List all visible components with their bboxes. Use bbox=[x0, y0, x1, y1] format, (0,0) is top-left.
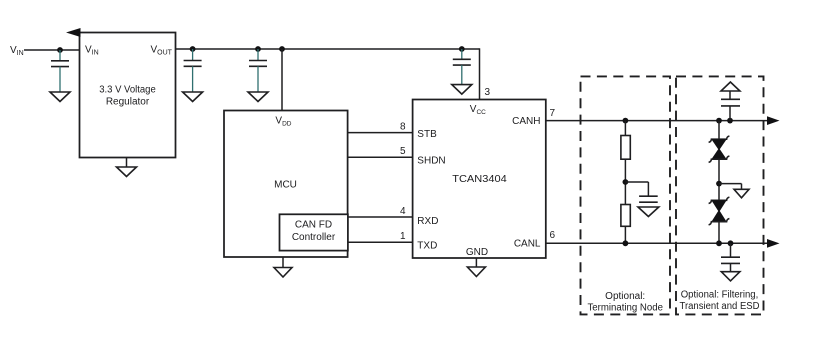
wire STB bbox=[348, 132, 413, 134]
pin number 6 bbox=[550, 230, 556, 241]
capacitor C6 CANH filter bbox=[721, 91, 740, 121]
svg-text:RXD: RXD bbox=[417, 216, 438, 227]
svg-text:GND: GND bbox=[466, 247, 488, 258]
junction CANH termination tap bbox=[623, 118, 629, 124]
pin number 8 bbox=[400, 122, 406, 133]
MCU name bbox=[274, 180, 297, 191]
CAN FD Controller label bbox=[292, 220, 336, 244]
junction C3 tap bbox=[255, 46, 261, 52]
junction VIN tap bbox=[57, 47, 63, 53]
wire VOUT rail bbox=[176, 48, 480, 50]
voltage regulator U1 box bbox=[80, 33, 176, 158]
pin number 5 bbox=[400, 146, 406, 157]
ground for U2 bbox=[467, 258, 485, 277]
resistor R1 bbox=[621, 136, 630, 160]
pin label VDD of MCU bbox=[275, 116, 291, 128]
wire SHDN bbox=[348, 156, 413, 158]
capacitor C1 input bypass bbox=[51, 50, 69, 92]
junction VDD tap bbox=[279, 46, 285, 52]
ground for C2 bbox=[183, 92, 203, 102]
wire R1 to R2 bbox=[624, 159, 626, 204]
junction C2 tap bbox=[190, 46, 196, 52]
pin label RXD bbox=[417, 216, 438, 227]
svg-text:8: 8 bbox=[400, 122, 406, 133]
capacitor C4 bbox=[453, 49, 471, 85]
svg-text:STB: STB bbox=[417, 129, 437, 140]
svg-text:CANH: CANH bbox=[512, 116, 540, 127]
ground for C5 bbox=[638, 207, 659, 217]
svg-text:5: 5 bbox=[400, 146, 406, 157]
pin number 4 bbox=[400, 206, 406, 217]
pin label VCC bbox=[470, 104, 486, 116]
svg-text:Transient and ESD: Transient and ESD bbox=[680, 301, 760, 312]
pin label TXD bbox=[417, 240, 437, 251]
pin label GND bbox=[466, 247, 488, 258]
junction split cap tap bbox=[623, 179, 629, 185]
dashed box optional filtering ESD bbox=[676, 76, 764, 314]
capacitor C7 CANL filter bbox=[721, 243, 740, 271]
ground up for C6 bbox=[721, 82, 740, 91]
ground for U1 bbox=[117, 158, 137, 177]
svg-text:TCAN3404: TCAN3404 bbox=[452, 174, 507, 185]
junction CANH filter cap tap bbox=[727, 118, 733, 124]
svg-text:3: 3 bbox=[485, 87, 491, 98]
label optional filtering transient ESD bbox=[680, 290, 760, 313]
pin label CANH bbox=[512, 116, 540, 127]
svg-text:7: 7 bbox=[550, 108, 556, 119]
wire TXD bbox=[348, 241, 413, 243]
svg-text:4: 4 bbox=[400, 206, 406, 217]
svg-text:MCU: MCU bbox=[274, 180, 297, 191]
arrow CANH bbox=[767, 116, 780, 125]
pin label VOUT of U1 bbox=[151, 45, 173, 57]
svg-text:Terminating Node: Terminating Node bbox=[587, 303, 663, 314]
MCU box bbox=[224, 111, 348, 258]
capacitor C3 bbox=[249, 49, 267, 92]
wire CANH bus bbox=[546, 120, 769, 122]
wire VIN input bbox=[24, 49, 80, 51]
pin label SHDN bbox=[417, 156, 445, 167]
wire midpoint to ground bbox=[719, 184, 742, 190]
pin label STB bbox=[417, 129, 437, 140]
pin label VIN of U1 bbox=[85, 45, 99, 57]
label optional terminating node bbox=[587, 291, 663, 314]
wire to split cap bbox=[625, 181, 648, 183]
wire R2 to CANL bbox=[624, 226, 626, 243]
junction CANL filter cap tap bbox=[728, 240, 734, 246]
pin number 1 bbox=[400, 231, 406, 242]
wire D1 to D2 bbox=[718, 159, 720, 200]
ground for C1 bbox=[50, 92, 70, 102]
node VIN label bbox=[10, 45, 24, 57]
svg-text:6: 6 bbox=[550, 230, 556, 241]
svg-text:Optional:: Optional: bbox=[605, 291, 645, 302]
svg-text:CANL: CANL bbox=[514, 238, 541, 249]
pin label CANL bbox=[514, 238, 541, 249]
ground for TVS midpoint bbox=[734, 189, 749, 198]
junction CANH TVS tap bbox=[716, 118, 722, 124]
U2 name TCAN3404 bbox=[452, 174, 507, 185]
svg-text:CAN FD: CAN FD bbox=[295, 220, 332, 231]
wire RXD bbox=[348, 216, 413, 218]
wire CANH to TVS D1 bbox=[718, 121, 720, 140]
junction C4 tap bbox=[459, 46, 465, 52]
ground for C7 bbox=[721, 272, 740, 281]
wire VDD stub to MCU bbox=[281, 49, 283, 111]
svg-text:SHDN: SHDN bbox=[417, 156, 445, 167]
ground for C4 bbox=[452, 85, 472, 95]
junction CANL TVS tap bbox=[716, 240, 722, 246]
capacitor C5 split termination bbox=[639, 182, 658, 202]
wire to R1 bbox=[624, 121, 626, 136]
CAN FD Controller box bbox=[280, 214, 348, 250]
dashed box optional terminating node bbox=[581, 76, 671, 314]
arrow input continuation bbox=[66, 28, 81, 37]
transceiver U2 TCAN3404 box bbox=[413, 100, 546, 259]
svg-text:Regulator: Regulator bbox=[106, 97, 150, 108]
wire VCC stub to TCAN bbox=[479, 48, 481, 99]
svg-text:Controller: Controller bbox=[292, 232, 336, 243]
capacitor C2 bbox=[184, 49, 202, 92]
pin number 7 bbox=[550, 108, 556, 119]
wire D2 to CANL bbox=[718, 222, 720, 244]
resistor R2 bbox=[621, 205, 630, 227]
wire CANL bus bbox=[546, 242, 769, 244]
pin number 3 bbox=[485, 87, 491, 98]
TVS diode D2 bidirectional bbox=[709, 197, 730, 225]
arrow CANL bbox=[767, 239, 780, 248]
ground for C3 bbox=[248, 92, 268, 102]
U1 name: 3.3 V Voltage Regulator bbox=[99, 85, 156, 108]
svg-text:3.3 V Voltage: 3.3 V Voltage bbox=[99, 85, 156, 96]
svg-text:TXD: TXD bbox=[417, 240, 437, 251]
junction TVS midpoint bbox=[716, 181, 722, 187]
svg-text:Optional: Filtering,: Optional: Filtering, bbox=[681, 290, 759, 301]
junction CANL termination tap bbox=[623, 240, 629, 246]
ground for MCU bbox=[274, 257, 292, 277]
svg-text:1: 1 bbox=[400, 231, 406, 242]
TVS diode D1 bidirectional bbox=[709, 136, 730, 162]
